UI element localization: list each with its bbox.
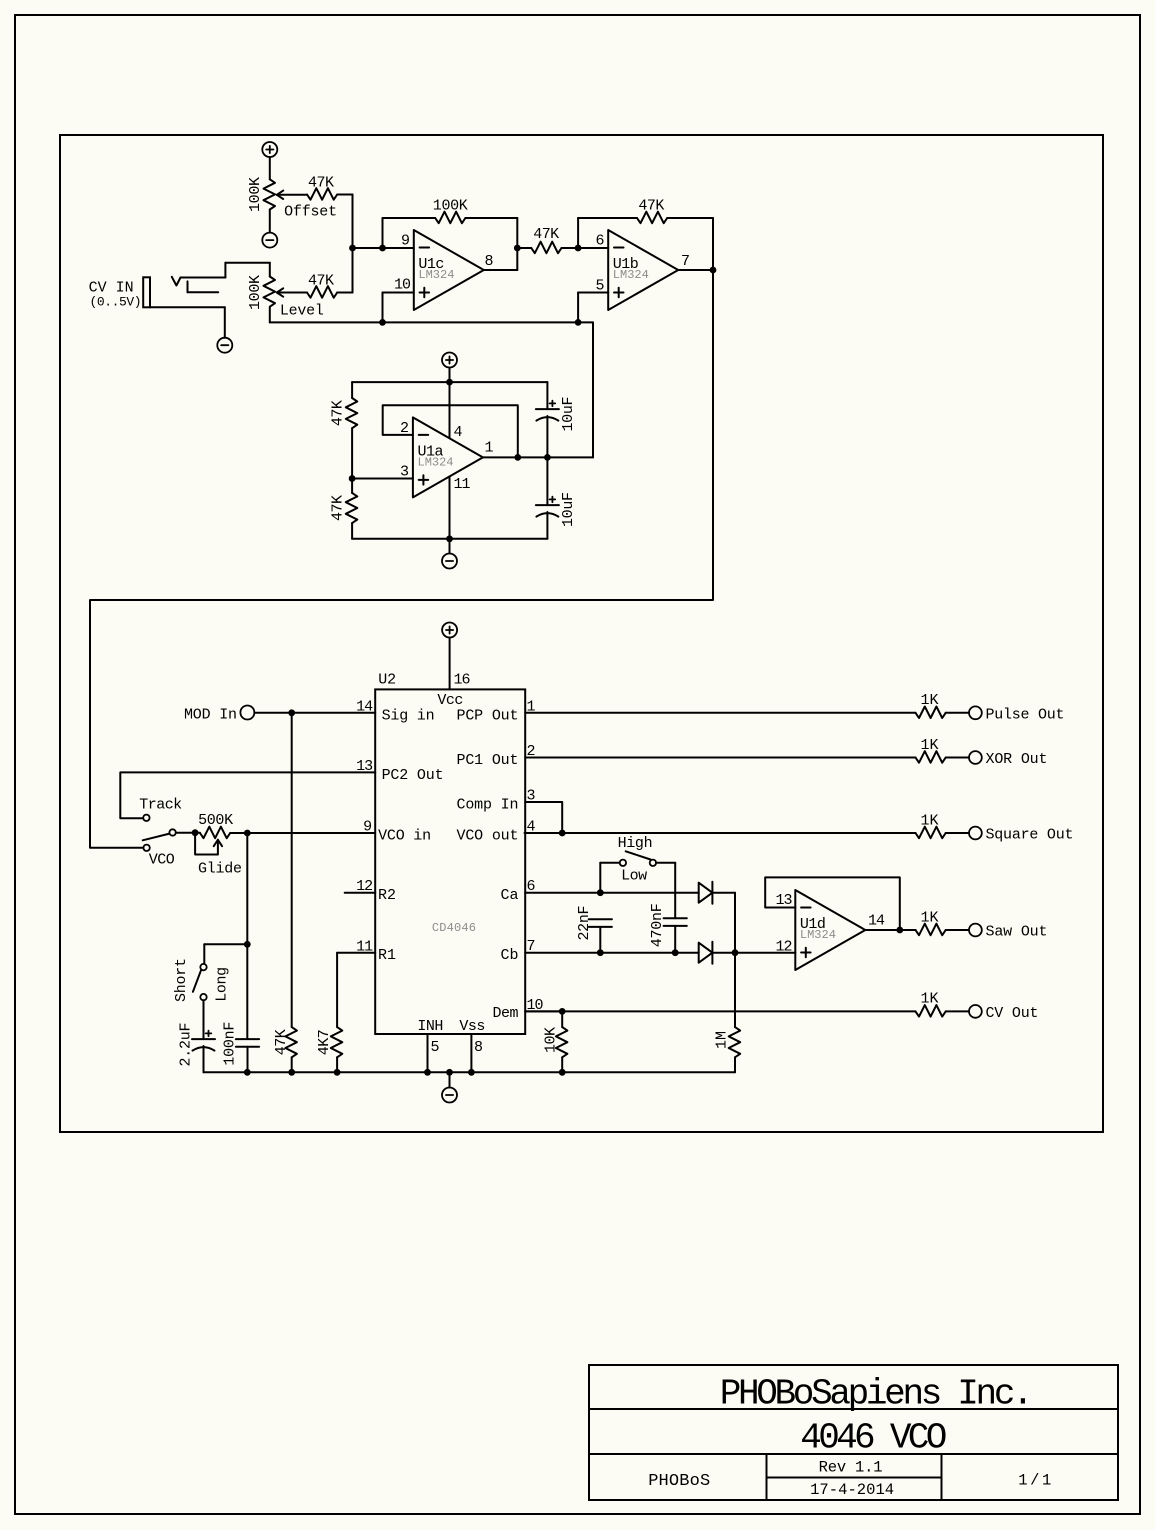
label VCO out	[457, 828, 519, 845]
wire Ca up to switch	[600, 863, 619, 893]
svg-text:100K: 100K	[433, 198, 468, 215]
wire cap branch upper	[546, 382, 548, 457]
svg-text:4K7: 4K7	[316, 1029, 333, 1055]
svg-text:LM324: LM324	[418, 455, 454, 469]
label Square Out	[986, 827, 1074, 844]
svg-text:9: 9	[401, 232, 410, 249]
wire U1c feedback left	[382, 218, 384, 248]
svg-text:1K: 1K	[921, 812, 939, 829]
label 1M	[713, 1031, 730, 1049]
label 500K	[198, 812, 233, 829]
node junction glide/cap	[244, 830, 251, 837]
port circle Square Out	[969, 827, 982, 840]
svg-text:LM324: LM324	[613, 268, 649, 282]
wire diode junction to 1M	[734, 953, 736, 1027]
wire 47K to U1b pin6	[562, 247, 609, 249]
wire 1K to Pulse Out port	[946, 712, 969, 714]
op-amp U1c	[414, 230, 484, 310]
node junction rail 47K	[288, 1069, 295, 1076]
label High	[618, 835, 653, 852]
svg-text:CD4046: CD4046	[432, 921, 476, 935]
svg-text:10uF: 10uF	[560, 492, 577, 527]
wire jack tip to level pot	[225, 263, 269, 277]
svg-text:10: 10	[394, 276, 411, 293]
svg-text:XOR Out: XOR Out	[986, 751, 1048, 768]
svg-text:47K: 47K	[308, 174, 334, 191]
svg-text:Level: Level	[280, 303, 324, 320]
svg-text:Vss: Vss	[459, 1018, 485, 1035]
resistor 1K (CV Out)	[916, 1005, 946, 1017]
title revision Rev 1.1	[819, 1459, 883, 1477]
svg-text:500K: 500K	[198, 812, 233, 829]
label Ca	[501, 887, 519, 904]
label Track	[139, 797, 182, 814]
svg-text:Glide: Glide	[198, 860, 242, 877]
svg-text:47K: 47K	[273, 1029, 290, 1055]
label Vcc	[437, 692, 463, 709]
svg-text:7: 7	[681, 253, 690, 270]
label Sig in	[382, 708, 435, 725]
svg-text:470nF: 470nF	[649, 903, 666, 947]
circle MOD In port	[240, 706, 254, 720]
label 2.2uF	[178, 1023, 195, 1067]
wire U1b feedback left	[577, 218, 579, 248]
op-amp U1a	[413, 417, 483, 497]
label PCP Out	[457, 708, 519, 725]
pin 9 label (VCO in)	[363, 819, 372, 836]
svg-text:Short: Short	[173, 958, 190, 1002]
svg-text:5: 5	[431, 1039, 440, 1056]
wire junction column	[352, 195, 354, 293]
label Saw Out	[986, 924, 1048, 941]
diode D2	[699, 942, 713, 964]
label 1K (CV Out)	[921, 991, 939, 1008]
svg-text:Offset: Offset	[284, 204, 337, 221]
svg-text:17-4-2014: 17-4-2014	[810, 1481, 894, 1499]
capacitor 2.2uF	[192, 1031, 215, 1051]
svg-text:1K: 1K	[921, 909, 939, 926]
pin 9 label (U1c -)	[401, 232, 410, 249]
wire level pot bottom rail	[270, 308, 593, 323]
label 22nF	[576, 906, 593, 941]
node junction rail ground	[446, 1069, 453, 1076]
label Cb	[501, 947, 519, 964]
svg-text:PC1 Out: PC1 Out	[457, 752, 519, 769]
svg-text:Track: Track	[139, 797, 182, 814]
node junction Ca 22nF	[597, 889, 604, 896]
svg-text:2.2uF: 2.2uF	[178, 1023, 195, 1067]
switch Short/Long	[193, 964, 207, 1000]
wire R1 to 4K7	[337, 953, 375, 1027]
svg-text:4046 VCO: 4046 VCO	[800, 1417, 947, 1458]
pin 10 label	[527, 997, 544, 1014]
label PC2 Out	[382, 767, 444, 784]
pin 8 label (U1c out)	[485, 253, 494, 270]
svg-text:R1: R1	[378, 947, 396, 964]
wire 22nF to Cb	[599, 927, 601, 953]
wire Comp In to VCO out	[525, 802, 562, 833]
svg-text:100nF: 100nF	[221, 1022, 238, 1066]
diode D1	[699, 882, 713, 904]
svg-text:VCO out: VCO out	[457, 828, 519, 845]
label Dem	[493, 1005, 519, 1022]
node junction top rail	[446, 379, 453, 386]
pin 2 label	[527, 743, 536, 760]
power -V symbol (offset pot bottom)	[262, 233, 277, 248]
wire Saw out stub	[900, 929, 916, 931]
svg-text:12: 12	[356, 878, 372, 895]
label 100nF	[221, 1022, 238, 1066]
wire diode junction to U1d pin12	[735, 952, 795, 954]
pin 3 label (U1a +)	[400, 464, 409, 481]
port circle Pulse Out	[969, 706, 982, 719]
port circle XOR Out	[969, 751, 982, 764]
resistor 10K	[556, 1027, 568, 1057]
wire 47K upper to pin3 node	[351, 428, 353, 493]
label Offset	[284, 204, 337, 221]
pin 5 label	[431, 1039, 440, 1056]
wire U1a pin2 loop	[383, 405, 518, 457]
wire 47K offset to junction	[337, 194, 352, 196]
label 470nF	[649, 903, 666, 947]
label Vss	[459, 1018, 485, 1035]
wire U1a output	[483, 456, 593, 458]
wire Cb to diode D2	[525, 952, 699, 954]
svg-text:Sig in: Sig in	[382, 708, 435, 725]
label Short	[173, 958, 190, 1002]
wire U1a bottom rail	[352, 538, 547, 540]
label U1a	[418, 443, 444, 460]
pin 5 label (U1b +)	[595, 278, 604, 295]
resistor 1K (Square Out)	[916, 827, 946, 839]
wire 1K to Square Out port	[946, 832, 969, 834]
switch Track/VCO	[143, 815, 176, 851]
node junction rail 10K	[559, 1069, 566, 1076]
pin 7 label	[527, 938, 536, 955]
label 10uF (upper)	[560, 397, 577, 432]
node junction short/long tap	[244, 941, 251, 948]
pin 7 label (U1b out)	[681, 253, 690, 270]
power +V symbol (U1a)	[442, 353, 457, 368]
label R2	[378, 887, 396, 904]
label XOR Out	[986, 751, 1048, 768]
wire Ca to diode D1	[525, 892, 699, 894]
svg-text:Cb: Cb	[501, 947, 519, 964]
resistor 1K (Saw Out)	[916, 924, 946, 936]
svg-text:Long: Long	[214, 967, 231, 1002]
resistor 100K (U1c feedback)	[435, 212, 465, 224]
node junction rail 100nF	[244, 1069, 251, 1076]
svg-text:22nF: 22nF	[576, 906, 593, 941]
label LM324 (U1d)	[800, 928, 836, 942]
op-amp U1d	[795, 890, 865, 970]
resistor 1M	[729, 1027, 741, 1057]
wire Dem to 10K	[525, 1010, 562, 1012]
node junction comp/vco	[559, 830, 566, 837]
svg-text:10K: 10K	[542, 1027, 559, 1053]
node junction MOD In branch	[288, 709, 295, 716]
resistor 47K (level)	[307, 286, 337, 298]
pin 6 label	[527, 878, 536, 895]
wire +V to U1a top rail	[449, 368, 451, 383]
node junction diodes	[732, 949, 739, 956]
svg-text:U2: U2	[378, 671, 396, 688]
power +V symbol (Vcc)	[442, 623, 457, 638]
label 10uF (lower)	[560, 492, 577, 527]
wire U1c feedback top left	[383, 217, 436, 219]
wire Long contact to 2.2uF	[203, 1000, 205, 1039]
label Low	[621, 868, 647, 885]
wire U1c output	[484, 269, 518, 271]
resistor 47K (offset)	[307, 188, 337, 200]
wire pin3 node to U1a	[352, 478, 413, 480]
switch High/Low	[620, 851, 656, 866]
pin 13 label	[356, 758, 373, 775]
label CV IN	[89, 279, 134, 296]
wire 1K to XOR Out port	[946, 757, 969, 759]
title company name PHOBoSapiens Inc.	[720, 1374, 1034, 1415]
wire 47K sig to rail	[291, 1057, 293, 1072]
resistor 1K (XOR Out)	[916, 751, 946, 763]
potentiometer Offset 100K	[264, 179, 308, 209]
wire 100nF to ground rail	[247, 1047, 249, 1073]
label 1K (Square Out)	[921, 812, 939, 829]
node junction U1a pin3	[349, 475, 356, 482]
wire bottom rail to -V	[449, 539, 451, 554]
svg-text:13: 13	[775, 892, 792, 909]
wire U1b out to VCO switch	[90, 270, 713, 848]
power ground symbol (rail)	[442, 1088, 457, 1103]
pin 12 label	[356, 878, 372, 895]
label 47K (interstage)	[533, 226, 559, 243]
wire ground rail	[204, 1071, 736, 1073]
node junction rail INH	[424, 1069, 431, 1076]
label 100K (level pot)	[247, 275, 264, 310]
pin 2 label (U1a -)	[400, 420, 409, 437]
wire U1c feedback top right	[465, 218, 517, 270]
wire CV Out line	[525, 1010, 915, 1012]
svg-text:11: 11	[356, 938, 373, 955]
wire top rail to 47K upper	[351, 382, 353, 398]
label LM324 (U1c)	[418, 268, 454, 282]
node junction U1b output	[710, 267, 717, 274]
svg-text:PCP Out: PCP Out	[457, 708, 519, 725]
schematic sheet box	[60, 135, 1103, 1132]
wire MOD In to Sig in	[254, 712, 375, 714]
node junction Dem 10K	[559, 1008, 566, 1015]
node junction U1c output	[514, 245, 521, 252]
op-amp U1b	[608, 230, 678, 310]
node junction rail Vss	[468, 1069, 475, 1076]
wire U1a pin11	[449, 477, 451, 539]
wire Vss pin 8	[470, 1034, 472, 1072]
wire mix node to U1c pin9	[353, 247, 414, 249]
wire 47K level to junction column	[337, 292, 352, 294]
node junction U1c noninverting branch	[379, 319, 386, 326]
wire switch to 470nF	[656, 863, 675, 918]
pin 1 label	[527, 698, 536, 715]
svg-text:10uF: 10uF	[560, 397, 577, 432]
node junction bottom rail	[446, 535, 453, 542]
wire INH pin 5	[427, 1034, 429, 1072]
svg-text:16: 16	[454, 671, 471, 688]
wire U1b output	[678, 269, 713, 271]
wire switch common to glide pot	[176, 832, 200, 834]
label Comp In	[457, 797, 519, 814]
capacitor 100nF	[236, 1039, 259, 1047]
title date 17-4-2014	[810, 1481, 894, 1499]
title project name 4046 VCO	[800, 1417, 947, 1458]
label MOD In	[184, 707, 237, 724]
svg-text:PHOBoS: PHOBoS	[648, 1472, 710, 1491]
label LM324 (U1a)	[418, 455, 454, 469]
svg-text:VCO in: VCO in	[378, 828, 431, 845]
label R1	[378, 947, 396, 964]
capacitor 470nF	[664, 918, 687, 926]
wire 1K to CV Out port	[946, 1010, 969, 1012]
svg-text:Ca: Ca	[501, 887, 519, 904]
pin 8 label	[474, 1039, 483, 1056]
pin 10 label (U1c +)	[394, 276, 411, 293]
label 100K (offset pot)	[247, 177, 264, 212]
svg-text:PHOBoSapiens Inc.: PHOBoSapiens Inc.	[720, 1374, 1034, 1415]
label 1K (Pulse Out)	[921, 692, 939, 709]
label 47K (U1a lower)	[330, 495, 347, 521]
node junction U1c inverting input	[379, 245, 386, 252]
svg-text:9: 9	[363, 819, 372, 836]
label U1c	[418, 256, 444, 273]
resistor 1K (Pulse Out)	[916, 707, 946, 719]
svg-text:1K: 1K	[921, 692, 939, 709]
svg-text:LM324: LM324	[418, 268, 454, 282]
svg-text:Rev 1.1: Rev 1.1	[819, 1459, 883, 1477]
label (0..5V)	[90, 295, 142, 310]
svg-text:13: 13	[356, 758, 373, 775]
port circle CV Out	[969, 1005, 982, 1018]
svg-text:100K: 100K	[247, 275, 264, 310]
wire 4K7 to rail	[336, 1057, 338, 1072]
svg-text:14: 14	[868, 913, 885, 930]
wire cap branch lower	[546, 457, 548, 538]
svg-text:100K: 100K	[247, 177, 264, 212]
capacitor 10uF (upper)	[536, 401, 559, 421]
label 47K (offset)	[308, 174, 334, 191]
svg-text:6: 6	[595, 232, 604, 249]
wire XOR Out line	[525, 757, 915, 759]
label 47K (level)	[308, 272, 334, 289]
label Long	[214, 967, 231, 1002]
wire 10K to rail	[561, 1057, 563, 1072]
wire U1c pin10	[383, 293, 414, 323]
svg-text:CV Out: CV Out	[986, 1005, 1039, 1022]
node junction U1d output	[896, 927, 903, 934]
wire 1K to Saw port	[946, 929, 969, 931]
label PC1 Out	[457, 752, 519, 769]
label 47K (sig)	[273, 1029, 290, 1055]
wire Pulse Out line	[525, 712, 915, 714]
wire glide pot to VCO in	[230, 832, 375, 834]
resistor 47K (U1c to U1b)	[531, 242, 561, 254]
wire U1b pin5	[578, 293, 608, 323]
label LM324 (U1b)	[613, 268, 649, 282]
label 100K (U1c feedback)	[433, 198, 468, 215]
wire U1b feedback top left	[578, 217, 637, 219]
pin 3 label	[527, 788, 536, 805]
power +V symbol (offset pot top)	[262, 142, 277, 157]
wire 2.2uF to ground rail	[203, 1046, 205, 1072]
label 4K7	[316, 1029, 333, 1055]
svg-text:4: 4	[454, 424, 463, 441]
svg-text:11: 11	[454, 476, 471, 493]
power ground symbol (CV jack)	[217, 338, 232, 353]
pin 11 label (U1a V-)	[454, 476, 471, 493]
svg-text:High: High	[618, 835, 653, 852]
potentiometer Level 100K	[264, 277, 308, 307]
wire D1 cathode down	[712, 893, 735, 953]
wire 470nF to Cb	[674, 926, 676, 953]
node junction offset/level mix	[349, 245, 356, 252]
svg-text:Dem: Dem	[493, 1005, 519, 1022]
pin 11 label	[356, 938, 373, 955]
label VCO	[149, 852, 175, 869]
wire U1c out to 47K	[517, 247, 531, 249]
title author PHOBoS	[648, 1472, 710, 1491]
wire rail to ground symbol	[449, 1072, 451, 1087]
label U1d	[800, 916, 826, 933]
pin 12 stub R2	[345, 892, 376, 894]
svg-text:14: 14	[356, 698, 373, 715]
capacitor 22nF	[589, 919, 612, 927]
node junction 470nF Cb	[672, 949, 679, 956]
wire U1a top rail	[352, 381, 547, 383]
label VCO in	[378, 828, 431, 845]
wire 1M to rail	[734, 1057, 736, 1072]
node junction rail 4K7	[334, 1069, 341, 1076]
svg-text:MOD In: MOD In	[184, 707, 237, 724]
svg-text:3: 3	[400, 464, 409, 481]
svg-text:47K: 47K	[330, 400, 347, 426]
node junction U1a out caps	[544, 454, 551, 461]
svg-text:Saw Out: Saw Out	[986, 924, 1048, 941]
label U1b	[613, 256, 639, 273]
svg-text:PC2 Out: PC2 Out	[382, 767, 444, 784]
label 10K	[542, 1027, 559, 1053]
pin 4 label (U1a V+)	[454, 424, 463, 441]
svg-text:8: 8	[485, 253, 494, 270]
svg-text:47K: 47K	[638, 198, 664, 215]
wire glide cap column	[246, 833, 248, 1038]
pin 12 label (U1d +)	[775, 938, 791, 955]
potentiometer Glide 500K	[195, 827, 230, 855]
svg-text:47K: 47K	[308, 272, 334, 289]
power -V symbol (U1a)	[442, 554, 457, 569]
wire U1b feedback top right	[667, 218, 713, 270]
title block frame	[589, 1365, 1118, 1500]
svg-text:1K: 1K	[921, 991, 939, 1008]
title sheet 1/1	[1018, 1471, 1051, 1489]
node junction U1a out loop	[514, 454, 521, 461]
wire U1d output	[865, 929, 915, 931]
label U2	[378, 671, 396, 688]
svg-text:INH: INH	[417, 1018, 443, 1035]
port circle Saw Out	[969, 924, 982, 937]
pin 13 label (U1d -)	[775, 892, 792, 909]
node junction 22nF Cb	[597, 949, 604, 956]
label Pulse Out	[986, 706, 1065, 723]
label CV Out	[986, 1005, 1039, 1022]
node junction glide pot left	[192, 829, 199, 836]
label INH	[417, 1018, 443, 1035]
